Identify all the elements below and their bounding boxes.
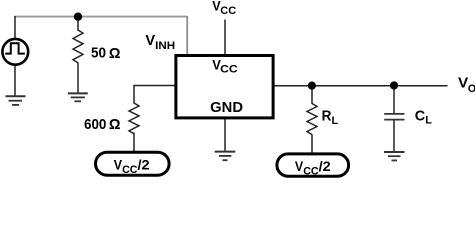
wire RL bottom to oval xyxy=(311,135,313,155)
svg-text:CC: CC xyxy=(220,5,236,17)
svg-text:L: L xyxy=(332,115,339,127)
node A junction dot xyxy=(74,13,82,21)
wire pulse source bottom to ground xyxy=(14,65,16,96)
pulse waveform symbol xyxy=(5,43,25,53)
label 600 ohm xyxy=(84,116,121,133)
svg-text:600: 600 xyxy=(84,117,106,133)
wire output horizontal to VO xyxy=(274,85,448,87)
svg-text:V: V xyxy=(145,32,155,49)
svg-text:/2: /2 xyxy=(138,157,150,173)
svg-text:50: 50 xyxy=(91,46,106,62)
svg-text:/2: /2 xyxy=(319,158,331,174)
wire 600ohm bottom to oval xyxy=(133,133,135,154)
label VO output xyxy=(458,74,475,95)
svg-text:O: O xyxy=(468,83,475,95)
wire top horizontal from pulse source to VINH corner xyxy=(14,16,187,18)
VCC/2 oval left xyxy=(96,152,170,175)
capacitor CL xyxy=(384,114,404,120)
wire GND pin to ground xyxy=(224,118,226,151)
svg-text:C: C xyxy=(415,107,426,124)
svg-text:Ω: Ω xyxy=(109,45,121,62)
pulse generator source xyxy=(2,39,28,65)
svg-text:CC: CC xyxy=(220,64,238,76)
label RL xyxy=(322,108,339,128)
ground below CL xyxy=(384,152,405,160)
svg-text:GND: GND xyxy=(210,100,243,116)
resistor 50 ohm xyxy=(73,30,83,63)
resistor RL xyxy=(307,104,317,135)
IC box U1 xyxy=(176,56,273,118)
wire VINH vertical down to box top xyxy=(186,16,188,55)
junction dot CL node xyxy=(390,81,398,89)
wire node A to 50ohm resistor xyxy=(77,16,79,31)
pin label VCC inside box xyxy=(212,56,237,75)
wire left pin horizontal to 600ohm xyxy=(134,85,176,87)
wire CL top xyxy=(393,86,395,113)
wire VCC pin vertical xyxy=(224,20,226,57)
svg-text:CC: CC xyxy=(303,165,318,177)
ground below 50 ohm xyxy=(68,93,88,101)
label VCC supply top xyxy=(212,0,236,17)
svg-text:V: V xyxy=(458,74,468,91)
label CL xyxy=(415,107,432,126)
wire 600ohm top vertical xyxy=(133,85,135,104)
label VINH xyxy=(145,32,175,52)
wire RL top xyxy=(311,86,313,104)
resistor 600 ohm xyxy=(129,103,139,134)
svg-text:Ω: Ω xyxy=(109,116,121,133)
pin label GND inside box xyxy=(210,100,243,116)
wire CL bottom to ground xyxy=(393,120,395,151)
ground below box GND pin xyxy=(215,152,236,161)
ground below pulse source xyxy=(6,96,26,105)
wire 50ohm resistor to ground xyxy=(77,63,79,94)
svg-text:INH: INH xyxy=(155,40,175,52)
svg-text:R: R xyxy=(322,108,332,125)
label 50 ohm xyxy=(91,45,121,62)
label VCC/2 right xyxy=(295,158,331,177)
VCC/2 oval right xyxy=(277,154,349,176)
label VCC/2 left xyxy=(114,157,150,176)
junction dot RL node xyxy=(308,82,316,90)
svg-text:L: L xyxy=(425,115,432,127)
svg-text:CC: CC xyxy=(122,164,137,176)
wire pulse source top vertical xyxy=(14,16,16,39)
